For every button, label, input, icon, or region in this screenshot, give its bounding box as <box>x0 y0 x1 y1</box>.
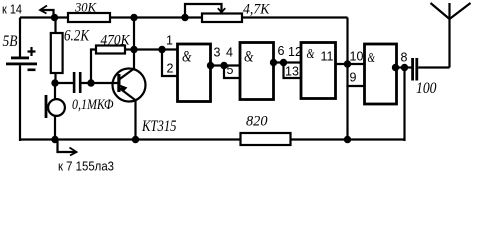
svg-text:470К: 470К <box>101 33 131 49</box>
svg-text:6: 6 <box>278 44 285 58</box>
wire: gate3 to gate4 row <box>336 63 365 65</box>
label 0.1MKF <box>72 97 114 113</box>
label 30K <box>74 0 97 15</box>
svg-text:100: 100 <box>416 80 437 97</box>
wire: bottom ground rail <box>20 138 405 140</box>
resistor R3 470K <box>91 46 134 84</box>
node: bottom rail junction <box>344 136 351 143</box>
pin 13 <box>285 65 299 79</box>
capacitor C2 100 <box>411 58 449 81</box>
wire: loop to pin 2 <box>162 50 178 77</box>
svg-text:4: 4 <box>226 46 233 60</box>
svg-text:к 7 155ла3: к 7 155ла3 <box>58 160 114 174</box>
node: gate3 pins 12-13 tie <box>280 59 287 66</box>
label 6.2K <box>64 28 90 45</box>
wire: loop to pin 9 <box>348 64 365 86</box>
node: mic / cap junction <box>51 79 58 86</box>
wire: battery minus down to bottom rail <box>19 65 21 141</box>
resistor R5 820 <box>241 133 291 145</box>
label KT315 <box>141 118 176 135</box>
wire: gate4 output row <box>396 66 412 68</box>
pin 12 <box>288 45 302 59</box>
microphone BM1 <box>45 83 65 140</box>
pin 1 <box>166 34 173 48</box>
wire: gate1 input row <box>134 48 178 50</box>
wire: arrow to pin 14 <box>40 6 54 18</box>
wire: gate1 to gate2 row <box>211 64 241 66</box>
label 470K <box>101 33 131 49</box>
node: gate4 output pin 8 <box>392 64 399 71</box>
pin 2 <box>167 62 174 76</box>
node: gate1 output <box>207 62 214 69</box>
svg-text:4,7К: 4,7К <box>243 2 271 18</box>
pin 3 <box>214 46 221 60</box>
pin 10 <box>350 50 364 64</box>
wire: output drop to bottom rail <box>403 68 405 142</box>
svg-text:820: 820 <box>246 114 268 130</box>
pin 4 <box>226 46 233 60</box>
label k 7 155la3 <box>58 160 114 174</box>
label 5V <box>3 33 18 50</box>
svg-text:КТ315: КТ315 <box>141 118 176 135</box>
svg-text:0,1МКФ: 0,1МКФ <box>72 97 114 113</box>
svg-text:8: 8 <box>401 51 408 65</box>
svg-text:&: & <box>182 49 192 66</box>
potentiometer R4 4.7K <box>181 4 242 22</box>
wire: loop to pin 5 <box>224 66 240 79</box>
transistor Q1 KT315 <box>113 69 146 141</box>
svg-text:10: 10 <box>350 50 364 64</box>
label 100 <box>416 80 437 97</box>
svg-text:&: & <box>307 47 315 62</box>
wire: left drop to battery <box>19 18 21 58</box>
wire: gate2 to gate3 row <box>274 61 302 63</box>
svg-text:1: 1 <box>166 34 173 48</box>
label 4.7K <box>243 2 271 18</box>
svg-text:9: 9 <box>350 71 357 85</box>
pin 9 <box>350 71 357 85</box>
node: base / R3 junction <box>87 79 94 86</box>
resistor R2 6.2K <box>51 18 63 84</box>
svg-text:2: 2 <box>167 62 174 76</box>
label k 14 <box>2 3 22 17</box>
node: gate4 pins 9-10 tie <box>344 60 351 67</box>
wire: loop to pin 13 <box>284 63 302 79</box>
pin 5 <box>227 63 234 77</box>
wire: arrow to pin 7 of 155LA3 <box>58 140 77 156</box>
resistor R1 30K <box>68 13 110 22</box>
pin 6 <box>278 44 285 58</box>
gate U1.2 <box>240 43 274 100</box>
svg-text:&: & <box>368 51 376 66</box>
wire: drop to bottom rail <box>346 86 348 140</box>
svg-text:3: 3 <box>214 46 221 60</box>
node: gate1 pins 1-2 tie <box>158 46 165 53</box>
svg-text:11: 11 <box>321 50 334 64</box>
wire: top rail drop to gate4 input <box>346 18 348 65</box>
node: output / ground branch <box>401 64 408 71</box>
svg-text:5В: 5В <box>3 33 18 50</box>
wire: collector riser from top rail <box>133 18 135 69</box>
node: gate2 output <box>270 59 277 66</box>
node: gate2 pins 4-5 tie <box>220 62 227 69</box>
pin 11 <box>321 50 334 64</box>
gate U1.4 <box>365 44 397 104</box>
node: emitter / bottom rail junction <box>132 136 139 143</box>
svg-text:к 14: к 14 <box>2 3 22 17</box>
svg-text:30К: 30К <box>74 0 97 15</box>
node: collector / R3 / gate1 input junction <box>130 46 137 53</box>
battery GB1 5V <box>6 47 37 71</box>
node: bottom rail mic junction <box>51 136 58 143</box>
node: top rail right of R1 <box>130 14 137 21</box>
svg-text:5: 5 <box>227 63 234 77</box>
svg-text:13: 13 <box>285 65 299 79</box>
wire: top supply rail <box>20 16 348 18</box>
gate U1.3 <box>301 43 336 99</box>
capacitor C1 0.1uF <box>55 72 118 93</box>
svg-text:6.2К: 6.2К <box>64 28 90 45</box>
pin 8 <box>401 51 408 65</box>
label 820 <box>246 114 268 130</box>
node: top rail / R2 divider junction <box>51 14 58 21</box>
gate U1.1 <box>178 44 211 102</box>
svg-text:&: & <box>244 49 254 66</box>
antenna W1 <box>431 3 471 68</box>
